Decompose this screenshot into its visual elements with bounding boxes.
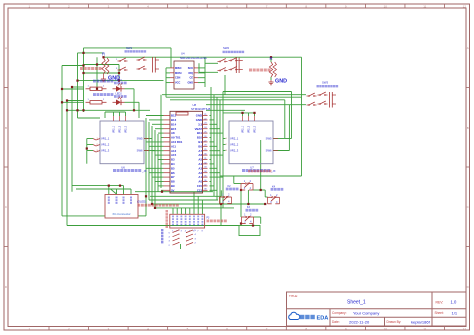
svg-text:A6: A6 (198, 153, 202, 157)
svg-text:1.0: 1.0 (451, 300, 457, 305)
svg-text:SW1: SW1 (126, 46, 133, 50)
svg-text:TITLE:: TITLE: (289, 294, 298, 298)
svg-text:B13: B13 (171, 118, 177, 122)
svg-text:B: B (467, 126, 469, 130)
svg-text:B10: B10 (197, 136, 203, 140)
svg-text:REV:: REV: (436, 301, 444, 305)
svg-text:VBAT: VBAT (195, 127, 203, 131)
svg-text:A15: A15 (171, 153, 177, 157)
svg-text:A11: A11 (171, 144, 176, 148)
svg-text:5V: 5V (171, 188, 175, 192)
svg-text:C13: C13 (197, 188, 203, 192)
svg-text:STM32C8T6-B: STM32C8T6-B (191, 107, 210, 111)
svg-text:B7: B7 (171, 175, 175, 179)
svg-text:VR2_1: VR2_1 (230, 137, 239, 141)
svg-text:GND: GND (196, 114, 202, 118)
svg-text:10: 10 (384, 327, 388, 331)
svg-text:VR2_1: VR2_1 (243, 125, 245, 133)
svg-text:U6: U6 (121, 165, 125, 169)
svg-text:VR2_3: VR2_3 (255, 125, 257, 133)
svg-text:Company:: Company: (332, 311, 347, 315)
svg-text:12: 12 (463, 5, 467, 9)
svg-text:SW5: SW5 (266, 137, 272, 141)
svg-text:CSN: CSN (175, 77, 180, 80)
svg-text:CE: CE (190, 77, 194, 80)
svg-text:C15: C15 (197, 184, 203, 188)
svg-text:LED2: LED2 (116, 92, 123, 95)
svg-text:1/1: 1/1 (452, 310, 458, 315)
svg-text:3: 3 (181, 231, 182, 233)
svg-text:SW2: SW2 (223, 46, 230, 50)
svg-text:A: A (5, 46, 7, 50)
svg-text:A3: A3 (198, 166, 202, 170)
svg-text:A: A (467, 46, 469, 50)
svg-text:10: 10 (384, 5, 388, 9)
svg-text:2022-11-20: 2022-11-20 (349, 319, 370, 324)
svg-text:4: 4 (185, 231, 186, 233)
svg-text:GND: GND (187, 82, 193, 85)
svg-text:SW5: SW5 (137, 137, 143, 141)
svg-text:B9: B9 (171, 184, 175, 188)
svg-text:B6: B6 (171, 171, 175, 175)
svg-text:B0: B0 (198, 144, 202, 148)
svg-text:Sheet:: Sheet: (435, 311, 444, 315)
svg-text:MOSI: MOSI (175, 72, 182, 75)
svg-text:11: 11 (423, 5, 426, 9)
svg-text:EDA: EDA (317, 316, 329, 322)
svg-text:A1: A1 (198, 175, 202, 179)
svg-text:NRF24L01+PA+LNA: NRF24L01+PA+LNA (180, 56, 207, 60)
svg-text:_JX: _JX (141, 169, 147, 173)
svg-text:Sheet_1: Sheet_1 (347, 300, 366, 306)
svg-text:B14: B14 (171, 122, 177, 126)
svg-text:A4: A4 (198, 162, 202, 166)
svg-text:7: 7 (197, 231, 198, 233)
svg-text:MISO: MISO (175, 67, 181, 70)
svg-text:VR2_2: VR2_2 (230, 143, 239, 147)
svg-text:SCK: SCK (188, 67, 193, 70)
svg-text:11: 11 (423, 327, 426, 331)
svg-text:IRQ: IRQ (189, 72, 194, 75)
svg-text:R: R (102, 52, 105, 57)
svg-text:B15: B15 (171, 127, 177, 131)
svg-text:XC-Connector: XC-Connector (112, 212, 130, 216)
svg-text:A7: A7 (198, 149, 202, 153)
svg-text:A5: A5 (198, 158, 202, 162)
svg-text:B8: B8 (171, 180, 175, 184)
svg-text:A2: A2 (198, 171, 202, 175)
svg-text:R: R (269, 56, 272, 61)
svg-text:SW3: SW3 (322, 81, 329, 85)
svg-text:VR2_3: VR2_3 (126, 125, 128, 133)
svg-text:VR1_1: VR1_1 (101, 137, 110, 141)
svg-text:A0: A0 (198, 180, 202, 184)
svg-text:8: 8 (202, 231, 203, 233)
svg-text:LED1: LED1 (116, 79, 123, 82)
svg-text:VCC: VCC (175, 82, 180, 85)
svg-text:GND: GND (275, 79, 287, 85)
svg-text:3.3: 3.3 (198, 122, 202, 126)
svg-text:Drawn By:: Drawn By: (387, 320, 402, 324)
svg-text:B4: B4 (171, 162, 175, 166)
svg-text:SW6: SW6 (266, 149, 272, 153)
svg-text:SW6: SW6 (137, 149, 143, 153)
svg-text:B: B (5, 126, 7, 130)
svg-text:Date:: Date: (332, 320, 340, 324)
svg-text:B3: B3 (171, 158, 175, 162)
svg-text:VR2_2: VR2_2 (249, 125, 251, 133)
svg-text:A9 TX1: A9 TX1 (171, 136, 181, 140)
svg-text:A10 RX1: A10 RX1 (171, 140, 183, 144)
svg-text:VR2_3: VR2_3 (230, 149, 239, 153)
svg-text:GND: GND (196, 118, 202, 122)
svg-text:12: 12 (463, 327, 467, 331)
svg-text:B12: B12 (171, 114, 177, 118)
svg-text:keplar186f: keplar186f (411, 319, 431, 324)
svg-text:B1: B1 (198, 140, 202, 144)
svg-text:VR1_3: VR1_3 (101, 149, 110, 153)
svg-text:VR1_2: VR1_2 (101, 143, 110, 147)
svg-text:U7: U7 (250, 165, 254, 169)
svg-text:U4: U4 (181, 52, 185, 56)
svg-text:B11: B11 (197, 131, 202, 135)
svg-text:A8: A8 (171, 131, 175, 135)
svg-text:B5: B5 (171, 166, 175, 170)
svg-text:(OLED): (OLED) (137, 200, 146, 204)
svg-text:Your Company: Your Company (353, 310, 379, 315)
svg-text:A12: A12 (171, 149, 177, 153)
svg-text:VR2_1: VR2_1 (114, 125, 116, 133)
svg-text:VR2_2: VR2_2 (120, 125, 122, 133)
